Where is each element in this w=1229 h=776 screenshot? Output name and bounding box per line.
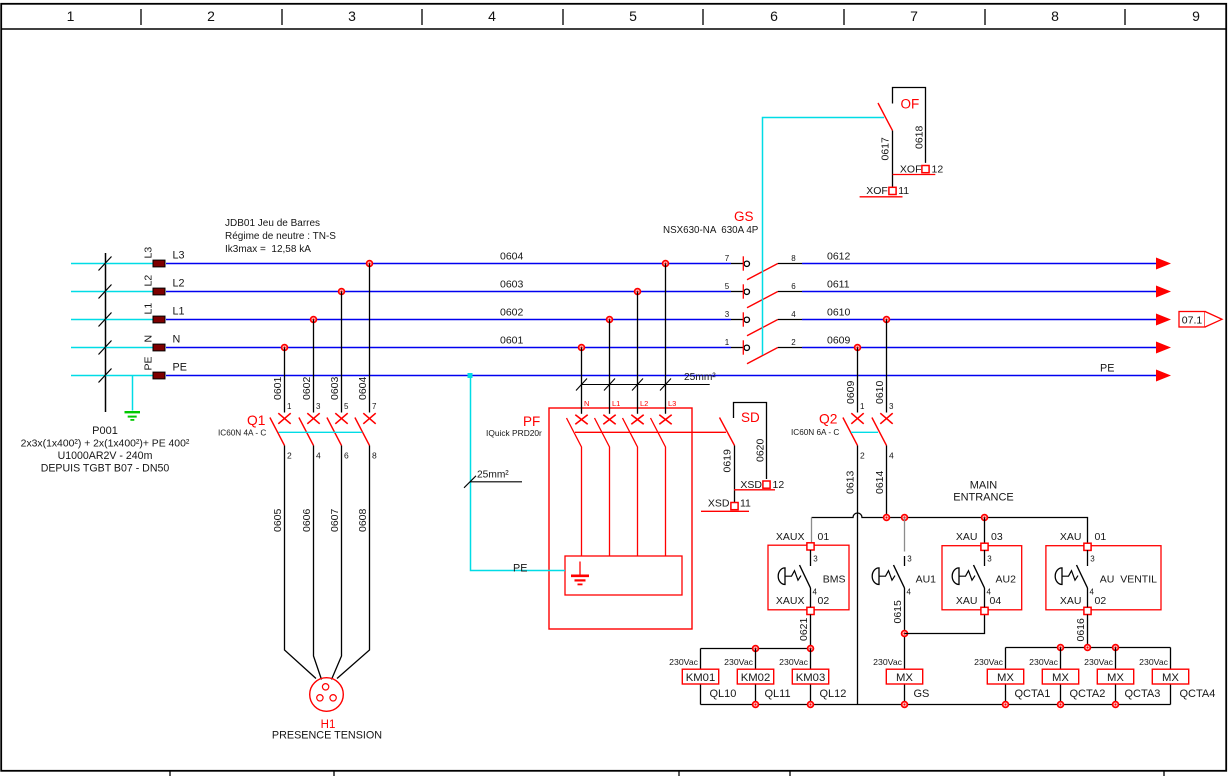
svg-text:KM03: KM03 <box>796 672 826 684</box>
wire 0614 Q2 to control rail <box>886 446 888 518</box>
breaker Q2 pole 2 blade <box>872 418 887 446</box>
contact OF bracket <box>893 88 926 163</box>
svg-text:N: N <box>173 334 181 346</box>
wire 0621 BMS to KM rail <box>810 615 812 649</box>
ground earth symbol inside PF <box>571 562 589 585</box>
svg-text:0610: 0610 <box>827 307 851 319</box>
svg-text:IC60N 4A - C: IC60N 4A - C <box>218 429 266 438</box>
svg-text:0602: 0602 <box>301 376 313 400</box>
svg-text:5: 5 <box>344 402 349 411</box>
wire incoming N (cyan) <box>71 347 153 349</box>
wire GS pole L3 output <box>778 263 802 265</box>
svg-text:QCTA3: QCTA3 <box>1125 688 1161 700</box>
wire KM coil supply rail <box>701 648 811 650</box>
svg-text:AU VENTIL: AU VENTIL <box>1100 574 1157 586</box>
svg-text:4: 4 <box>791 310 796 319</box>
svg-text:2: 2 <box>287 451 292 461</box>
svg-text:7: 7 <box>725 254 730 263</box>
svg-text:0619: 0619 <box>722 449 734 473</box>
wire 0606 Q1 to H1 <box>314 446 322 680</box>
wire bus L2 right segment / net 0611 <box>802 291 1156 293</box>
svg-text:0620: 0620 <box>755 438 767 462</box>
switch GS pole L1 blade <box>747 320 778 336</box>
svg-text:OF: OF <box>901 97 920 112</box>
svg-text:XAUX: XAUX <box>776 531 805 543</box>
junction net 0601 on bus <box>282 345 288 351</box>
label XAU 01 <box>1060 531 1106 543</box>
svg-text:DEPUIS TGBT B07 - DN50: DEPUIS TGBT B07 - DN50 <box>41 463 170 475</box>
wire QCTA coil supply rail <box>1006 647 1171 649</box>
wire 0607 Q1 to H1 <box>332 446 342 680</box>
svg-text:3: 3 <box>907 555 912 564</box>
svg-text:5: 5 <box>725 282 730 291</box>
terminal XAU 04 <box>981 607 988 614</box>
svg-text:0608: 0608 <box>357 508 369 532</box>
PF internal block <box>565 556 682 595</box>
svg-text:0602: 0602 <box>500 307 524 319</box>
wire 0615 AU1 to GS coil <box>904 588 906 705</box>
svg-text:L1: L1 <box>143 303 155 315</box>
junction 0621 / KM rail <box>808 646 814 652</box>
svg-text:230Vac: 230Vac <box>974 657 1003 667</box>
junction QCTA3 supply <box>1113 645 1119 651</box>
box AU VENTIL enclosure <box>1046 546 1161 610</box>
wire PF actuation link to SD <box>575 431 726 433</box>
arrow bus L3 continuation <box>1156 258 1171 270</box>
indicator lamp H1 <box>310 678 344 712</box>
junction QL12 return <box>808 702 814 708</box>
junction net 0604 on bus <box>367 261 373 267</box>
breaker Q1 pole 2 contact cross <box>307 413 319 424</box>
wire incoming L2 (cyan) <box>71 291 153 293</box>
svg-text:QL12: QL12 <box>820 688 847 700</box>
breaker Q1 pole 1 blade <box>270 418 285 446</box>
push button BMS blade <box>800 565 811 588</box>
svg-text:0612: 0612 <box>827 251 851 263</box>
coil MX (QCTA3) <box>1097 669 1133 684</box>
push button BMS bottom wire <box>810 588 812 607</box>
label XOF 12 <box>893 164 944 176</box>
wire 0615 branch to XAU 04 <box>905 615 985 634</box>
coil MX (QCTA1) <box>987 669 1023 684</box>
svg-text:3: 3 <box>316 402 321 411</box>
junction XAU03 branch <box>982 515 988 521</box>
svg-text:230Vac: 230Vac <box>669 657 698 667</box>
wire 0609 bus to Q2 <box>857 348 859 413</box>
push button AU1 blade <box>894 565 905 588</box>
svg-text:1: 1 <box>725 338 730 347</box>
wire bus L2 to PF pole <box>637 292 639 414</box>
wire control rail to XAU 03 <box>984 518 986 544</box>
wire coil QL11 drop <box>755 649 757 705</box>
junction net 0609 tap <box>855 345 861 351</box>
junction PF tap on bus L1 <box>607 317 613 323</box>
terminal XAU 02 <box>1084 607 1091 614</box>
label XOF 11 <box>860 185 910 197</box>
svg-text:MX: MX <box>896 672 913 684</box>
junction QCTA3 return <box>1113 702 1119 708</box>
wire GS pole L2 output <box>778 291 802 293</box>
svg-text:25mm²: 25mm² <box>477 470 509 481</box>
push button AU VENTIL blade <box>1077 565 1088 588</box>
svg-text:L2: L2 <box>143 275 155 287</box>
wire bus L1 to PF pole <box>609 320 611 414</box>
svg-text:12: 12 <box>932 164 944 176</box>
svg-text:L3: L3 <box>668 399 676 408</box>
svg-text:8: 8 <box>372 451 377 461</box>
svg-text:1: 1 <box>860 402 865 411</box>
wire 0610 bus to Q2 <box>886 320 888 413</box>
svg-text:1: 1 <box>287 402 292 411</box>
junction GS return <box>902 702 908 708</box>
svg-text:0603: 0603 <box>329 376 341 400</box>
switch GS pole L2 fixed contact <box>731 284 750 298</box>
junction PF tap on bus L3 <box>663 261 669 267</box>
svg-text:0617: 0617 <box>880 137 892 161</box>
breaker Q2 mechanical link (cyan) <box>851 431 878 433</box>
PF pole L2 contact cross <box>631 415 643 425</box>
terminal L2 busbar connection <box>153 288 165 295</box>
wire incoming L3 (cyan) <box>71 263 153 265</box>
wire GS pole L1 output <box>778 319 802 321</box>
junction QL11 return <box>753 702 759 708</box>
wire bus L1 left segment <box>166 319 731 321</box>
svg-text:0604: 0604 <box>357 376 369 400</box>
contact SD blade <box>720 418 735 446</box>
svg-text:MAIN: MAIN <box>970 480 998 492</box>
svg-text:2: 2 <box>860 451 865 461</box>
surge arrester PF enclosure <box>549 408 692 629</box>
svg-text:0609: 0609 <box>827 335 851 347</box>
svg-text:3: 3 <box>348 8 356 24</box>
svg-text:N: N <box>143 335 155 343</box>
cable P001 incoming vertical line <box>105 253 107 412</box>
svg-text:L1: L1 <box>612 399 620 408</box>
svg-text:QCTA1: QCTA1 <box>1015 688 1051 700</box>
gauge mark 25mm2 on PE wire <box>464 476 522 488</box>
svg-text:XAU: XAU <box>1060 595 1082 607</box>
wire incoming PE (cyan) <box>71 375 153 377</box>
svg-text:01: 01 <box>1095 531 1107 543</box>
svg-text:QCTA2: QCTA2 <box>1070 688 1106 700</box>
junction PE cyan tap <box>468 373 473 378</box>
wire coil QL12 drop <box>810 649 812 705</box>
breaker Q1 mechanical link (cyan) <box>279 431 363 433</box>
push button AU2 mushroom actuator <box>952 568 975 585</box>
wire 0605 Q1 to H1 <box>285 446 317 679</box>
svg-text:P001: P001 <box>92 425 118 437</box>
cable core mark L3 <box>99 257 112 271</box>
junction net 0603 on bus <box>339 289 345 295</box>
svg-text:JDB01 Jeu de Barres: JDB01 Jeu de Barres <box>225 218 320 229</box>
svg-text:230Vac: 230Vac <box>1139 657 1168 667</box>
svg-text:0611: 0611 <box>827 279 850 291</box>
terminal XAU 03 <box>981 543 988 550</box>
svg-text:KM01: KM01 <box>686 672 716 684</box>
push button BMS top wire <box>810 550 812 566</box>
PF pole L1 contact cross <box>603 415 615 425</box>
svg-text:0621: 0621 <box>798 617 810 641</box>
svg-text:KM02: KM02 <box>741 672 771 684</box>
svg-text:L3: L3 <box>143 247 155 259</box>
wire incoming L1 (cyan) <box>71 319 153 321</box>
wire GS pole N output <box>778 347 802 349</box>
svg-text:0601: 0601 <box>272 376 284 400</box>
off-page reference 07.1 <box>1179 312 1222 328</box>
breaker Q1 pole 4 contact cross <box>363 413 375 424</box>
svg-text:6: 6 <box>791 282 796 291</box>
coil MX (QCTA2) <box>1042 669 1078 684</box>
svg-text:02: 02 <box>818 595 830 607</box>
push button AU1 top wire <box>904 556 906 566</box>
svg-text:MX: MX <box>1107 672 1124 684</box>
PF pole L3 contact cross <box>659 415 671 425</box>
wire 0613 Q2 to bottom rail <box>857 446 859 705</box>
coil KM03 (QL12) <box>792 669 828 684</box>
svg-text:QL10: QL10 <box>710 688 737 700</box>
terminal XOF 12 <box>922 166 929 173</box>
push button AU2 blade <box>974 565 985 588</box>
box BMS enclosure <box>768 545 849 610</box>
wire coil QCTA2 drop <box>1060 648 1062 705</box>
svg-text:230Vac: 230Vac <box>1029 657 1058 667</box>
svg-text:PE: PE <box>173 362 187 374</box>
svg-text:25mm²: 25mm² <box>684 372 716 383</box>
svg-text:0604: 0604 <box>500 251 524 263</box>
contact OF blade <box>878 103 893 131</box>
junction QCTA2 supply <box>1058 645 1064 651</box>
ground earth symbol <box>125 412 141 420</box>
svg-text:3: 3 <box>1090 555 1095 564</box>
svg-text:XAU: XAU <box>956 531 978 543</box>
junction 0616 / QCTA rail <box>1085 645 1091 651</box>
svg-text:2: 2 <box>791 338 796 347</box>
junction QCTA1 return <box>1003 702 1009 708</box>
PF pole N contact cross <box>575 415 587 425</box>
svg-text:7: 7 <box>910 8 918 24</box>
svg-text:NSX630-NA 630A 4P: NSX630-NA 630A 4P <box>663 225 759 236</box>
breaker Q2 pole 1 contact cross <box>851 413 863 424</box>
wire bus N left segment <box>166 347 731 349</box>
svg-text:PE: PE <box>513 563 527 575</box>
terminal XOF 11 <box>889 187 896 194</box>
switch GS pole N blade <box>747 348 778 364</box>
push button AU1 mushroom actuator <box>872 568 895 585</box>
svg-text:0613: 0613 <box>845 470 857 494</box>
wire coil QCTA3 drop <box>1115 648 1117 705</box>
wire control rail with hop over 0613 <box>812 513 1088 543</box>
svg-text:01: 01 <box>818 531 830 543</box>
svg-text:8: 8 <box>1051 8 1059 24</box>
wire bus L3 left segment <box>166 263 731 265</box>
svg-text:5: 5 <box>629 8 637 24</box>
label XAU 03 <box>956 531 1003 543</box>
wire coil QCTA4 drop <box>1170 648 1172 705</box>
breaker Q2 pole 2 contact cross <box>880 413 892 424</box>
breaker Q1 pole 3 contact cross <box>335 413 347 424</box>
svg-text:L2: L2 <box>173 278 185 290</box>
push button AU VENTIL bottom wire <box>1087 588 1089 607</box>
junction QCTA2 return <box>1058 702 1064 708</box>
svg-text:U1000AR2V - 240m: U1000AR2V - 240m <box>58 450 153 462</box>
svg-text:IC60N 6A - C: IC60N 6A - C <box>791 428 839 437</box>
PF pole L2 blade <box>623 418 638 556</box>
svg-text:6: 6 <box>344 451 349 461</box>
label XSD 12 <box>734 479 784 491</box>
svg-text:9: 9 <box>1192 8 1200 24</box>
breaker Q1 pole 1 contact cross <box>278 413 290 424</box>
svg-text:0610: 0610 <box>874 380 886 404</box>
svg-text:ENTRANCE: ENTRANCE <box>953 492 1014 504</box>
terminal L3 busbar connection <box>153 260 165 267</box>
wire bus N to PF pole <box>581 348 583 414</box>
svg-text:3: 3 <box>725 310 730 319</box>
svg-text:XAU: XAU <box>956 595 978 607</box>
svg-text:02: 02 <box>1095 595 1107 607</box>
wire coil QCTA1 drop <box>1005 648 1007 705</box>
svg-text:04: 04 <box>990 595 1002 607</box>
svg-text:GS: GS <box>734 209 754 224</box>
cable core mark N <box>99 341 112 355</box>
svg-text:6: 6 <box>770 8 778 24</box>
svg-text:230Vac: 230Vac <box>724 657 753 667</box>
arrow bus L1 continuation <box>1156 314 1171 326</box>
svg-text:MX: MX <box>997 672 1014 684</box>
label XAU 02 <box>1060 595 1106 607</box>
svg-text:Ik3max = 12,58 kA: Ik3max = 12,58 kA <box>225 244 311 255</box>
svg-text:11: 11 <box>898 185 909 197</box>
svg-text:AU1: AU1 <box>916 574 937 586</box>
breaker Q1 pole 4 blade <box>355 418 370 446</box>
svg-text:L3: L3 <box>173 250 185 262</box>
label XAU 04 <box>956 595 1001 607</box>
push button AU VENTIL mushroom actuator <box>1055 568 1078 585</box>
push button AU2 bottom wire <box>984 588 986 607</box>
svg-text:8: 8 <box>791 254 796 263</box>
coil MX (QCTA4) <box>1152 669 1188 684</box>
wire 0608 Q1 to H1 <box>337 446 370 679</box>
svg-text:0614: 0614 <box>874 470 886 494</box>
wire GS to OF mechanical link (cyan) <box>763 118 885 356</box>
push button AU2 top wire <box>984 550 986 566</box>
switch GS pole L3 fixed contact <box>731 256 750 270</box>
svg-text:2x3x(1x400²) + 2x(1x400²)+ PE: 2x3x(1x400²) + 2x(1x400²)+ PE 400² <box>21 439 190 450</box>
svg-text:3: 3 <box>813 555 818 564</box>
svg-text:MX: MX <box>1162 672 1179 684</box>
svg-text:0601: 0601 <box>500 335 524 347</box>
contact SD bracket <box>734 403 767 480</box>
svg-text:0603: 0603 <box>500 279 524 291</box>
arrow bus L2 continuation <box>1156 286 1171 298</box>
wire control rail to XAUX 01 (gray) <box>811 518 813 543</box>
coil KM01 (QL10) <box>682 669 718 684</box>
svg-text:4: 4 <box>488 8 496 24</box>
svg-text:07.1: 07.1 <box>1182 315 1203 327</box>
svg-text:MX: MX <box>1052 672 1069 684</box>
svg-text:2: 2 <box>207 8 215 24</box>
junction net 0602 on bus <box>311 317 317 323</box>
svg-text:0605: 0605 <box>272 508 284 532</box>
wire PE to earth (cyan) <box>132 376 134 411</box>
svg-text:PF: PF <box>523 414 540 429</box>
svg-text:4: 4 <box>907 588 912 597</box>
wire 0616 AU VENTIL to QCTA rail <box>1087 615 1089 648</box>
junction PF tap on bus N <box>579 345 585 351</box>
svg-text:PRESENCE TENSION: PRESENCE TENSION <box>272 730 382 742</box>
push button AU VENTIL top wire <box>1087 550 1089 566</box>
switch GS pole L2 blade <box>747 292 778 308</box>
svg-text:N: N <box>584 399 589 408</box>
terminal XSD 12 <box>763 481 770 488</box>
wire bus L2 left segment <box>166 291 731 293</box>
svg-text:Régime de neutre : TN-S: Régime de neutre : TN-S <box>225 231 336 242</box>
terminal XAUX 02 <box>807 607 814 614</box>
svg-text:XOF: XOF <box>900 164 922 176</box>
switch GS pole L3 blade <box>747 264 778 280</box>
svg-text:0616: 0616 <box>1075 618 1087 642</box>
svg-text:SD: SD <box>741 410 760 425</box>
wire bus PE <box>166 375 1156 377</box>
coil MX (GS) <box>886 669 922 684</box>
wire 0601 bus to Q1 pin 1 <box>284 348 286 413</box>
svg-text:Q1: Q1 <box>247 413 265 428</box>
wire bus N right segment / net 0609 <box>802 347 1156 349</box>
wire bus L3 right segment / net 0612 <box>802 263 1156 265</box>
svg-text:230Vac: 230Vac <box>779 657 808 667</box>
cable core mark L1 <box>99 313 112 327</box>
coil KM02 (QL11) <box>737 669 773 684</box>
svg-text:PE: PE <box>1100 363 1114 375</box>
svg-text:0607: 0607 <box>329 508 341 532</box>
svg-text:BMS: BMS <box>823 574 846 586</box>
svg-text:IQuick PRD20r: IQuick PRD20r <box>486 428 542 438</box>
junction PF tap on bus L2 <box>635 289 641 295</box>
svg-text:0615: 0615 <box>892 600 904 624</box>
wire 0604 bus to Q1 pin 7 <box>369 264 371 413</box>
breaker Q1 pole 3 blade <box>327 418 342 446</box>
wire 0603 bus to Q1 pin 5 <box>341 292 343 413</box>
svg-text:230Vac: 230Vac <box>873 657 902 667</box>
svg-text:0606: 0606 <box>301 508 313 532</box>
svg-text:XAUX: XAUX <box>776 595 805 607</box>
svg-text:3: 3 <box>987 555 992 564</box>
svg-text:3: 3 <box>889 402 894 411</box>
wire bus L3 to PF pole <box>665 264 667 414</box>
PF pole L3 blade <box>651 418 666 556</box>
terminal L1 busbar connection <box>153 316 165 323</box>
junction net 0610 tap <box>884 317 890 323</box>
cable core mark L2 <box>99 285 112 299</box>
svg-text:L1: L1 <box>173 306 185 318</box>
terminal N busbar connection <box>153 344 165 351</box>
junction 0615 branch to XAU 04 <box>902 631 908 637</box>
gauge mark 25mm2 on PF wires <box>576 379 710 391</box>
svg-text:GS: GS <box>914 688 930 700</box>
wire 0617 <box>892 131 894 188</box>
terminal XAU 01 <box>1084 543 1091 550</box>
wire control rail to AU1 (gray) <box>904 518 906 552</box>
svg-text:230Vac: 230Vac <box>1084 657 1113 667</box>
junction KM02 supply <box>753 646 759 652</box>
label XSD 11 <box>701 498 751 512</box>
svg-text:Q2: Q2 <box>819 412 837 427</box>
junction AU1 branch <box>902 515 908 521</box>
wire coil return rail <box>701 704 1171 706</box>
svg-text:0609: 0609 <box>845 380 857 404</box>
breaker Q1 pole 2 blade <box>299 418 314 446</box>
label XAUX 02 <box>776 595 829 607</box>
svg-text:1: 1 <box>67 8 75 24</box>
